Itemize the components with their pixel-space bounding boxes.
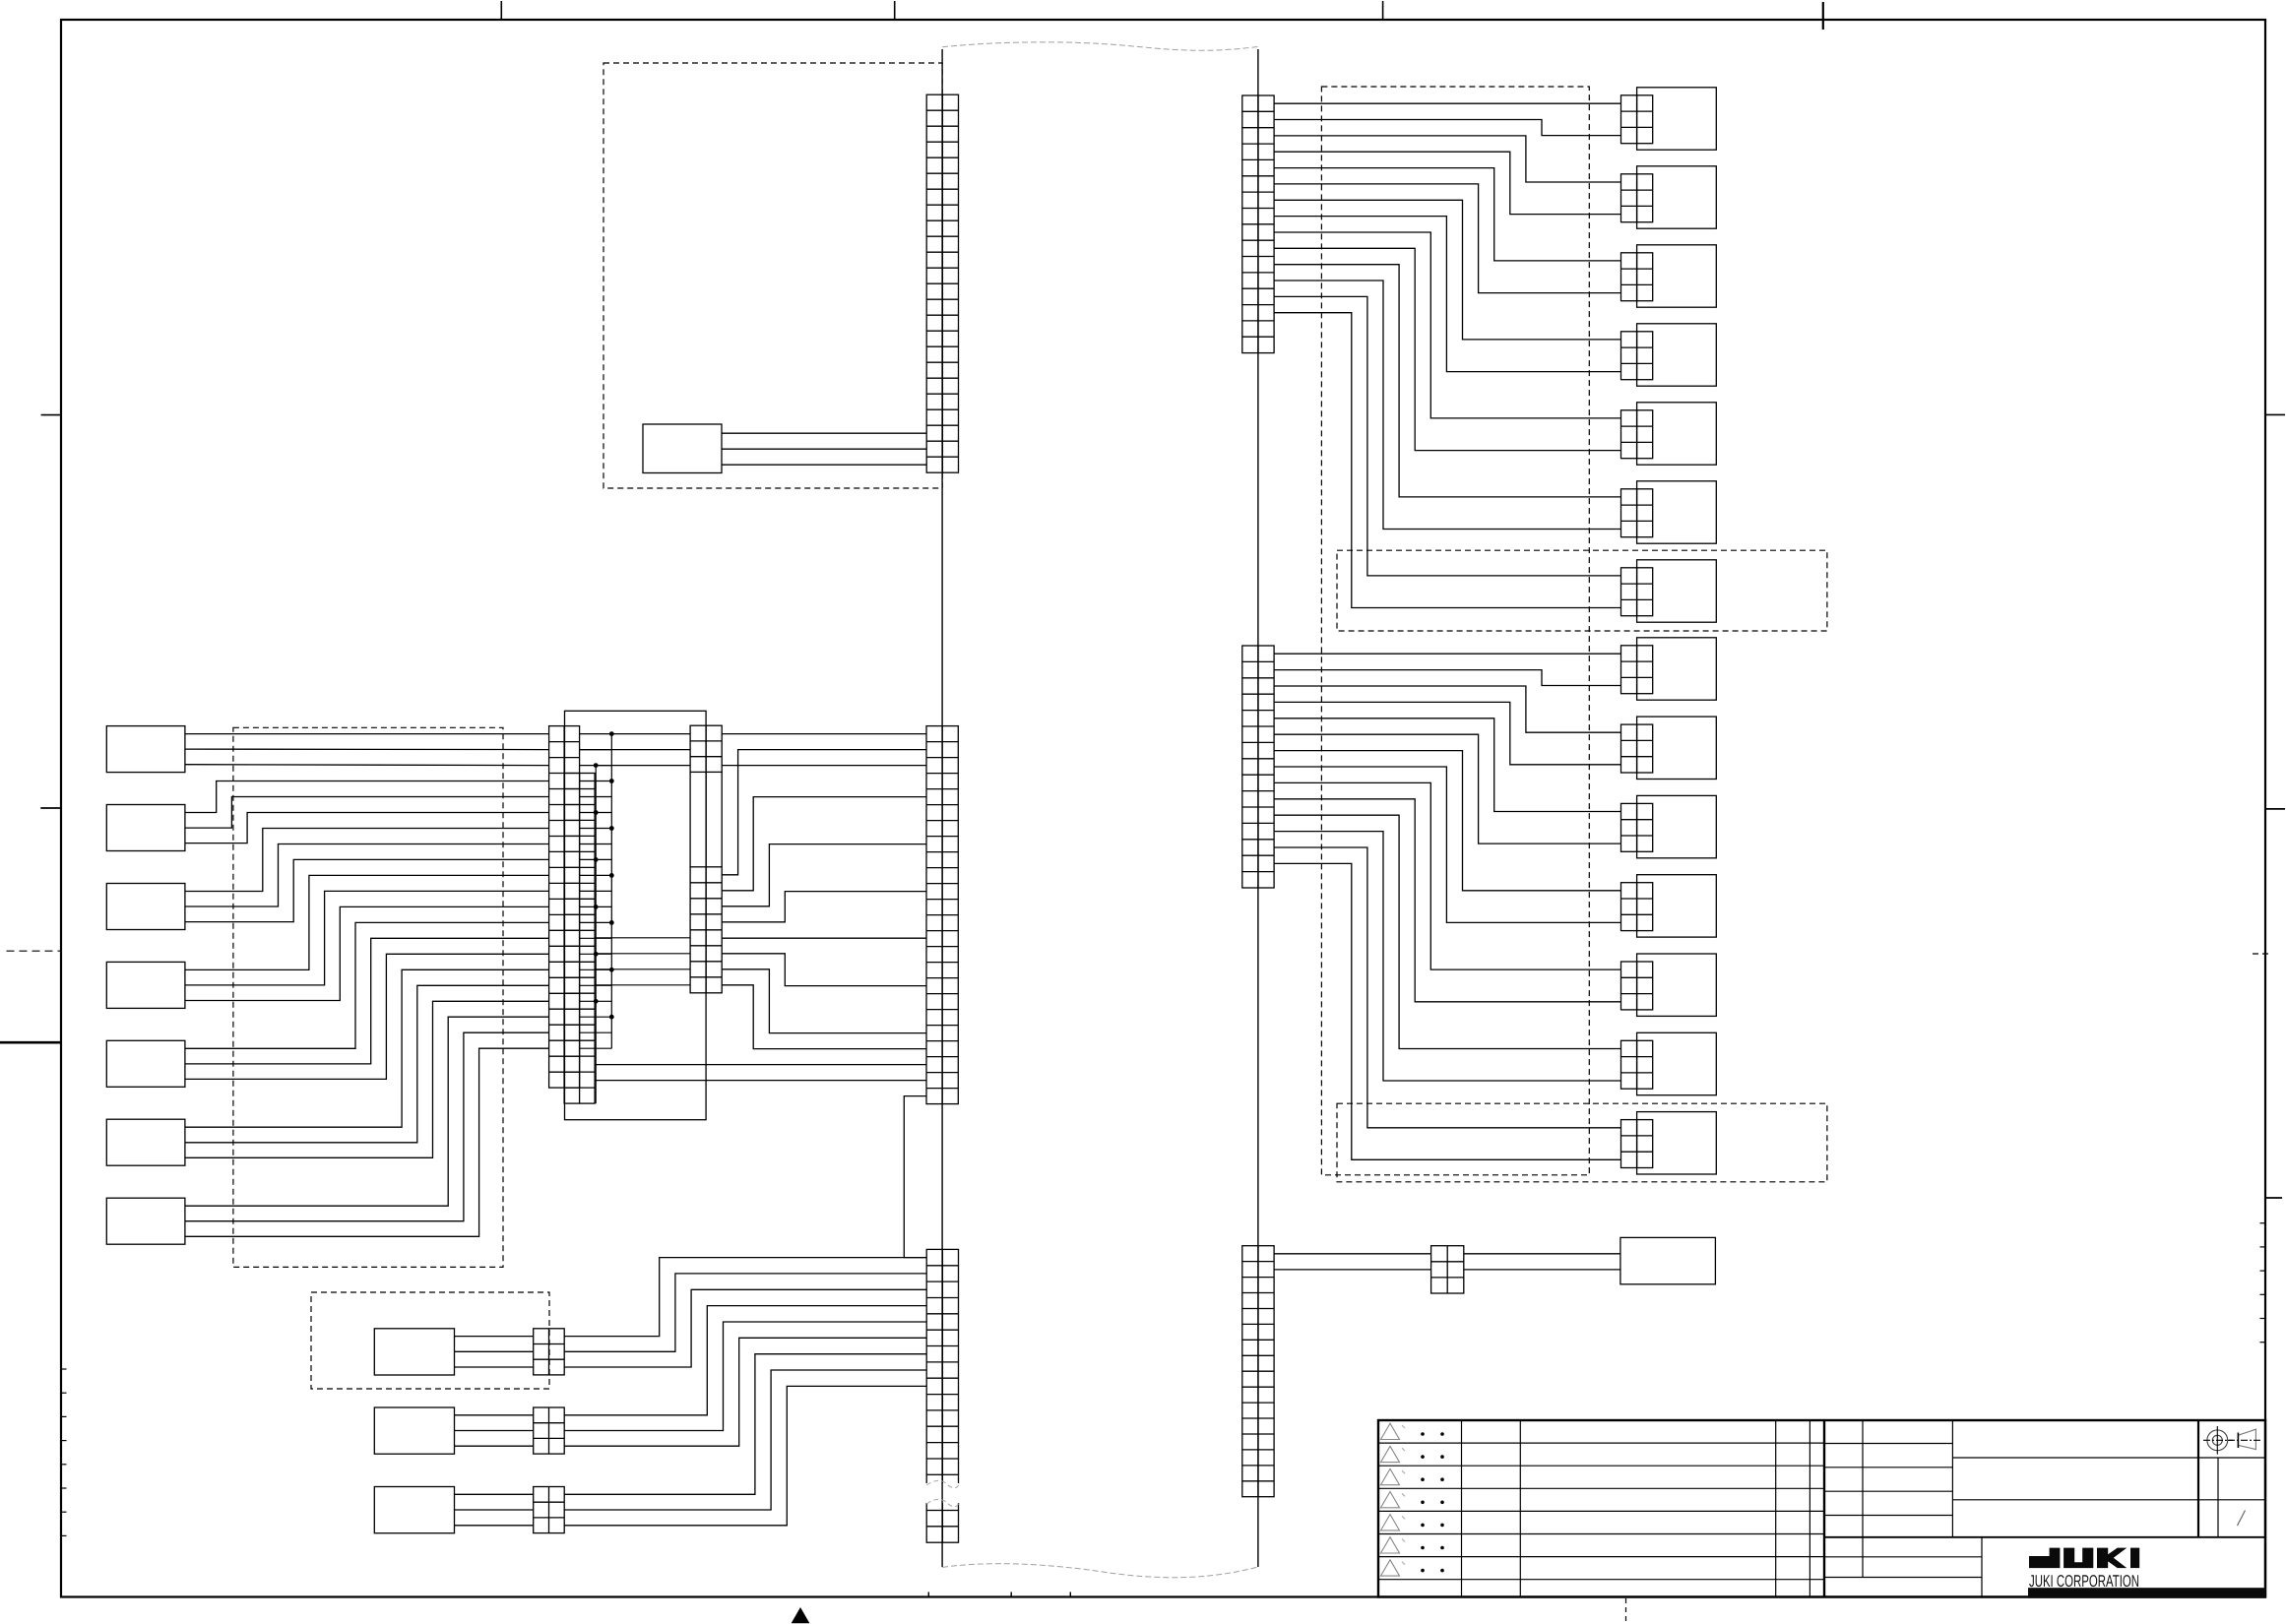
wire D7 pin3 to CN-A row 21 — [185, 1048, 549, 1236]
bus connector ladder CN-R3 (right lower) — [1242, 1246, 1274, 1497]
bottom alignment triangle marker — [793, 1608, 809, 1623]
wire CN-C low8 to CN-ML row21 — [722, 985, 926, 1049]
bottom inline connector CN-E2 — [534, 1407, 565, 1454]
board connector ladder CN-C blank section — [690, 772, 722, 866]
wire G2 ladder row 3 to load G2-2 — [1274, 686, 1620, 732]
board connector ladder CN-A — [549, 726, 580, 1089]
scale slash — [2238, 1511, 2246, 1527]
wire CN-E3 pin1 to CN-LL row 7 — [564, 1354, 926, 1495]
right border dashed mark — [2253, 953, 2272, 955]
wire E2 pin3 to CN-E2 — [455, 1445, 534, 1447]
wire G1 ladder row 10 to load G1-5 — [1274, 248, 1620, 450]
load connector G2-7 — [1621, 1120, 1653, 1168]
right harness dashed enclosure (tall) — [1321, 87, 1589, 1175]
board connector ladder CN-C top section — [690, 725, 722, 772]
top module dashed enclosure — [603, 63, 942, 488]
wire G2 ladder row 1 to load G2-1 — [1274, 653, 1620, 655]
wire G1 ladder row 3 to load G1-2 — [1274, 136, 1620, 182]
wire G2 ladder row 6 to load G2-3 — [1274, 734, 1620, 843]
load box G2-6 — [1637, 1032, 1717, 1094]
wire CN-B to CN-ML row23 — [595, 1080, 926, 1082]
load connector G2-4 — [1621, 883, 1653, 931]
wire E3 pin1 to CN-E3 — [455, 1493, 534, 1495]
wire CN-E1 pin3 to CN-LL row 3 — [564, 1289, 926, 1367]
load connector G1-6 — [1621, 489, 1653, 537]
left device box D7 — [106, 1198, 185, 1244]
load connector G1-1 — [1621, 95, 1653, 144]
wire CN-C low2 to CN-ML row5 — [722, 797, 926, 891]
revision table separator (thick) — [1823, 1420, 1825, 1597]
wire G2 ladder row 13 to load G2-7 — [1274, 847, 1620, 1128]
left sensor dashed enclosure — [233, 727, 503, 1267]
wire D1 pin1 to CN-A row 1 — [185, 733, 549, 735]
first angle projection symbol — [2203, 1426, 2260, 1455]
common bus vertical net V1 with junctions — [610, 734, 612, 1049]
wire CN-E3 pin3 to CN-LL row 9 — [564, 1386, 926, 1525]
load connector G2-2 — [1621, 724, 1653, 773]
board internal wire row3 — [596, 765, 690, 767]
wire D3 pin3 to CN-A row 9 — [185, 859, 549, 921]
wire G1 ladder row 8 to load G1-4 — [1274, 217, 1620, 372]
left device box D1 — [106, 726, 185, 773]
wire CN-C row1 to CN-ML row1 — [722, 733, 926, 735]
wire CN-C low3 to CN-ML row8 — [722, 844, 926, 906]
load box G2-5 — [1637, 954, 1717, 1016]
wire G1 ladder row 6 to load G1-3 — [1274, 184, 1620, 293]
wire D2 pin1 to CN-A row 4 — [185, 781, 549, 813]
wire CN-E1 pin1 to CN-LL row 1 — [564, 1258, 926, 1337]
load connector G1-5 — [1621, 410, 1653, 459]
board internal wire row14 — [595, 937, 690, 939]
wire G2 ladder row 14 to load G2-7 — [1274, 863, 1620, 1159]
load box G2-4 — [1637, 875, 1717, 937]
bottom device box E1 — [374, 1329, 454, 1375]
right border ruler ticks — [2260, 1223, 2266, 1343]
bus connector ladder CN-LL break wavy top — [926, 1480, 958, 1487]
right dashed enclosure around load L15 — [1337, 1103, 1827, 1182]
load box G2-3 — [1637, 795, 1717, 857]
load connector G1-7 — [1621, 568, 1653, 616]
wire G2 ladder row 12 to load G2-6 — [1274, 832, 1620, 1081]
wire CN-C low1 to CN-ML row2 — [722, 750, 926, 875]
left border tick middle — [40, 807, 60, 809]
bottom border dashed fold mark — [1625, 1598, 1627, 1624]
bottom device box E3 — [374, 1487, 454, 1533]
revision date dots — [1421, 1432, 1444, 1572]
board internal wire row1 — [611, 733, 690, 735]
bus bottom break wavy line — [942, 1564, 1258, 1578]
wire G1 ladder row 11 to load G1-6 — [1274, 265, 1620, 497]
wire inline connector to device box S1 pin2 — [1464, 1269, 1620, 1271]
wire M1 pin3 to CN-TL — [722, 464, 926, 466]
right dashed enclosure around load L7 — [1337, 550, 1827, 631]
load connector G1-2 — [1621, 174, 1653, 222]
load box G1-3 — [1637, 245, 1717, 307]
title block band separator — [1824, 1536, 2265, 1538]
wire D1 pin3 to CN-A row 3 — [185, 764, 549, 767]
wire D5 pin2 to CN-A row 14 — [185, 938, 549, 1064]
wire M1 pin1 to CN-TL — [722, 432, 926, 434]
projection symbol cell divider — [2197, 1420, 2199, 1537]
revision mark triangles — [1381, 1423, 1406, 1576]
wire D5 pin3 to CN-A row 15 — [185, 954, 549, 1079]
wire G1 ladder row 5 to load G1-3 — [1274, 168, 1620, 261]
revision table row lines — [1378, 1443, 1824, 1580]
load box G2-2 — [1637, 717, 1717, 779]
top border zone tick 1 — [500, 1, 502, 21]
wire G2 ladder row 9 to load G2-5 — [1274, 782, 1620, 969]
right border tick upper — [2265, 413, 2285, 415]
bus connector ladder CN-LL lower part — [926, 1511, 958, 1543]
wire G2 ladder row 7 to load G2-4 — [1274, 751, 1620, 891]
wire CN-R3 row1 to inline connector — [1274, 1253, 1431, 1255]
wire D1 pin2 to CN-A row 2 — [185, 748, 549, 751]
bus connector ladder CN-LL (lower left) upper part — [926, 1249, 958, 1474]
scale cell divider — [2217, 1458, 2219, 1537]
bus connector ladder CN-ML (middle left) — [926, 726, 958, 1104]
wire G1 ladder row 4 to load G1-2 — [1274, 152, 1620, 214]
load box G2-7 — [1637, 1112, 1717, 1174]
wire D6 pin1 to CN-A row 16 — [185, 969, 549, 1127]
title field row lines — [1952, 1458, 2265, 1500]
load connector G2-1 — [1621, 646, 1653, 694]
load connector G1-4 — [1621, 332, 1653, 380]
title block centre column lines — [1824, 1420, 1982, 1597]
wire CN-ML row24 link to CN-LL row1 — [904, 1096, 926, 1258]
wire CN-E3 pin2 to CN-LL row 8 — [564, 1370, 926, 1510]
load connector G2-5 — [1621, 962, 1653, 1010]
wire G2 ladder row 8 to load G2-4 — [1274, 767, 1620, 922]
left device box D3 — [106, 884, 185, 930]
board internal wire row17 — [595, 984, 690, 986]
top border zone tick 3 — [1382, 1, 1384, 21]
left device box D4 — [106, 962, 185, 1008]
wire D4 pin1 to CN-A row 10 — [185, 875, 549, 969]
load box G1-1 — [1637, 88, 1717, 150]
load box G1-7 — [1637, 560, 1717, 622]
wire G1 ladder row 12 to load G1-6 — [1274, 281, 1620, 530]
wire D5 pin1 to CN-A row 13 — [185, 922, 549, 1048]
wire CN-E1 pin2 to CN-LL row 2 — [564, 1274, 926, 1351]
relay board outline — [565, 711, 707, 1119]
load box G2-1 — [1637, 638, 1717, 700]
title block bottom black bar — [2028, 1588, 2265, 1598]
device box S1 — [1620, 1237, 1716, 1283]
wire E2 pin1 to CN-E2 — [455, 1414, 534, 1416]
board internal wire row2 — [580, 749, 690, 751]
wire CN-E2 pin2 to CN-LL row 5 — [564, 1322, 926, 1431]
board internal wire row15 — [595, 953, 690, 955]
inline connector pair CN-S — [1431, 1246, 1464, 1293]
bus connector ladder CN-LL break section sides — [926, 1474, 958, 1510]
wire G1 ladder row 1 to load G1-1 — [1274, 102, 1620, 104]
wire E1 pin2 to CN-E1 — [455, 1350, 534, 1352]
right border tick lower — [2265, 1197, 2282, 1199]
load box G1-5 — [1637, 403, 1717, 465]
wire CN-C low7 to CN-ML row20 — [722, 969, 926, 1033]
wire M1 pin2 to CN-TL — [722, 448, 926, 450]
wire G2 ladder row 5 to load G2-3 — [1274, 718, 1620, 812]
common bus vertical net V2 with junctions — [595, 766, 597, 1104]
wire G1 ladder row 2 to load G1-1 — [1274, 120, 1620, 136]
wire CN-B to CN-ML row22 — [595, 1064, 926, 1066]
bus connector ladder CN-R1 (right upper) — [1242, 95, 1274, 353]
board internal wire row16 — [595, 968, 690, 970]
wire D6 pin2 to CN-A row 17 — [185, 985, 549, 1143]
wire CN-C row3 to CN-ML row3 — [722, 765, 926, 767]
wire E1 pin1 to CN-E1 — [455, 1336, 534, 1338]
bus top break wavy line — [942, 42, 1258, 50]
bottom module dashed enclosure — [311, 1292, 549, 1389]
board row stubs — [580, 734, 612, 1049]
bottom inline connector CN-E3 — [534, 1487, 565, 1533]
left device box D6 — [106, 1119, 185, 1165]
right border tick middle — [2265, 808, 2285, 810]
wire G1 ladder row 13 to load G1-7 — [1274, 296, 1620, 576]
wire CN-C low5 to CN-ML row14 — [722, 937, 926, 939]
load connector G1-3 — [1621, 253, 1653, 301]
wire G1 ladder row 7 to load G1-4 — [1274, 200, 1620, 340]
wire CN-R3 row2 to inline connector — [1274, 1269, 1431, 1271]
wire CN-E2 pin1 to CN-LL row 4 — [564, 1306, 926, 1415]
left device box D5 — [106, 1040, 185, 1087]
wire D3 pin2 to CN-A row 8 — [185, 844, 549, 907]
load box G1-2 — [1637, 166, 1717, 228]
wire E1 pin3 to CN-E1 — [455, 1366, 534, 1368]
wire G2 ladder row 10 to load G2-5 — [1274, 799, 1620, 1002]
left border tick upper — [41, 414, 61, 416]
bus connector ladder CN-TL (top left) — [926, 94, 958, 472]
load connector G2-6 — [1621, 1040, 1653, 1089]
load box G1-4 — [1637, 324, 1717, 386]
wire G2 ladder row 4 to load G2-2 — [1274, 702, 1620, 764]
bottom device box E2 — [374, 1407, 454, 1454]
top module component box M1 — [643, 424, 722, 473]
wire D2 pin2 to CN-A row 5 — [185, 797, 549, 829]
wire CN-E2 pin3 to CN-LL row 6 — [564, 1338, 926, 1446]
bottom border ruler ticks — [928, 1593, 1070, 1597]
wire G2 ladder row 11 to load G2-6 — [1274, 815, 1620, 1048]
top border zone tick 4 — [1822, 2, 1824, 30]
wire D2 pin3 to CN-A row 6 — [185, 813, 549, 843]
bus connector ladder CN-LL break wavy bottom — [926, 1499, 958, 1506]
bus connector ladder CN-R2 (right middle) — [1242, 646, 1274, 888]
wire CN-C low4 to CN-ML row11 — [722, 892, 926, 922]
wire G1 ladder row 9 to load G1-5 — [1274, 232, 1620, 418]
top border zone tick 2 — [894, 1, 896, 21]
revision table column lines — [1462, 1420, 1810, 1597]
wire D4 pin3 to CN-A row 12 — [185, 906, 549, 1000]
wire inline connector to device box S1 pin1 — [1464, 1253, 1620, 1255]
left device box D2 — [106, 805, 185, 851]
wire G2 ladder row 2 to load G2-1 — [1274, 670, 1620, 686]
wire G1 ladder row 14 to load G1-7 — [1274, 313, 1620, 608]
main harness bus left edge — [941, 49, 943, 1567]
bottom inline connector CN-E1 — [534, 1329, 565, 1375]
JUKI logo — [2029, 1548, 2139, 1569]
wire D7 pin2 to CN-A row 20 — [185, 1032, 549, 1221]
left border ruler ticks — [61, 1369, 67, 1535]
wire E2 pin2 to CN-E2 — [455, 1430, 534, 1432]
wire D4 pin2 to CN-A row 11 — [185, 891, 549, 985]
board connector ladder CN-C lower section — [690, 867, 722, 993]
wire D7 pin1 to CN-A row 19 — [185, 1017, 549, 1206]
wire CN-C low6 to CN-ML row17 — [722, 954, 926, 986]
title block outline — [1378, 1420, 2265, 1597]
wire E3 pin2 to CN-E3 — [455, 1509, 534, 1511]
left border centre mark — [0, 1041, 61, 1044]
wire D6 pin3 to CN-A row 18 — [185, 1001, 549, 1157]
left border dashed mark — [7, 950, 61, 952]
wire D3 pin1 to CN-A row 7 — [185, 829, 549, 892]
load connector G2-3 — [1621, 803, 1653, 851]
board connector ladder CN-B — [564, 774, 595, 1104]
main harness bus right edge — [1257, 49, 1259, 1567]
load box G1-6 — [1637, 481, 1717, 543]
wire E3 pin3 to CN-E3 — [455, 1525, 534, 1527]
